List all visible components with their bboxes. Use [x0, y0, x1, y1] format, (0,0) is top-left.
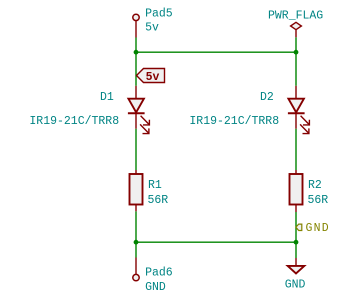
svg-text:5v: 5v	[146, 71, 160, 84]
svg-text:IR19-21C/TRR8: IR19-21C/TRR8	[29, 115, 119, 128]
svg-text:GND: GND	[285, 279, 306, 292]
svg-text:GND: GND	[145, 281, 166, 294]
svg-text:56R: 56R	[308, 194, 329, 207]
svg-text:IR19-21C/TRR8: IR19-21C/TRR8	[189, 115, 279, 128]
svg-text:Pad6: Pad6	[145, 267, 173, 280]
svg-text:Pad5: Pad5	[145, 8, 173, 21]
svg-text:R2: R2	[308, 179, 322, 192]
svg-text:R1: R1	[148, 179, 162, 192]
svg-text:D1: D1	[100, 91, 114, 104]
svg-text:PWR_FLAG: PWR_FLAG	[268, 10, 323, 23]
svg-text:GND: GND	[306, 222, 330, 235]
svg-text:56R: 56R	[148, 194, 169, 207]
svg-text:D2: D2	[260, 91, 274, 104]
svg-text:5v: 5v	[145, 22, 159, 35]
